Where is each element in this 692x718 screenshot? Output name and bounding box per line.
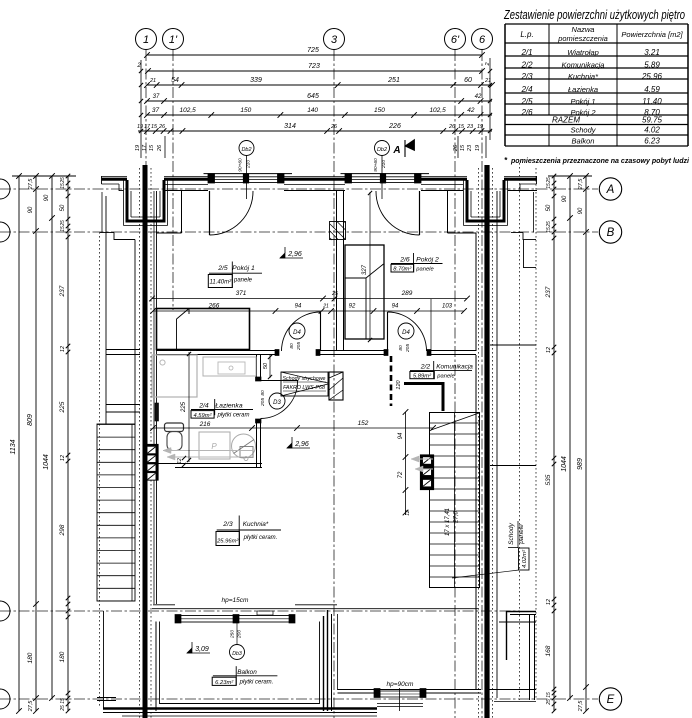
svg-text:Pokój 2: Pokój 2: [416, 257, 439, 264]
door D4 left leaf: [320, 312, 322, 351]
svg-text:25: 25: [331, 291, 339, 297]
svg-text:Nazwa: Nazwa: [572, 25, 595, 34]
svg-text:B: B: [607, 227, 615, 239]
svg-text:535: 535: [545, 474, 552, 485]
svg-text:15: 15: [60, 698, 66, 704]
svg-text:2/1: 2/1: [520, 48, 532, 57]
svg-text:27,5: 27,5: [578, 178, 584, 191]
chimney hatch in partition: [330, 222, 346, 240]
svg-text:21: 21: [149, 78, 156, 84]
svg-text:103: 103: [442, 304, 453, 310]
bathroom walls: [256, 355, 258, 380]
svg-text:25.96: 25.96: [641, 72, 663, 81]
stair balustrade: [404, 384, 443, 412]
axis A left stub bubble: [0, 179, 10, 199]
axis E line: [0, 698, 598, 700]
svg-text:15: 15: [151, 124, 158, 130]
svg-text:102,5: 102,5: [429, 107, 446, 114]
svg-text:90: 90: [562, 195, 568, 202]
axis B line: [0, 231, 598, 233]
svg-text:12: 12: [60, 455, 66, 461]
svg-text:19: 19: [477, 124, 483, 130]
svg-text:L.p.: L.p.: [520, 30, 533, 39]
kitchen south wall left part: [152, 608, 478, 610]
svg-text:15: 15: [546, 227, 552, 233]
svg-text:płytki ceram.: płytki ceram.: [243, 535, 278, 541]
svg-text:725: 725: [307, 47, 319, 54]
neighbour left walls: [100, 232, 114, 234]
stair opening dashed edge: [390, 356, 393, 406]
door top-left leaf: [209, 191, 211, 235]
svg-text:4.59m²: 4.59m²: [193, 413, 212, 419]
svg-text:3,09: 3,09: [195, 646, 209, 653]
right entry recess walls: [463, 180, 465, 226]
svg-text:168: 168: [545, 645, 552, 656]
neighbour right walls: [496, 191, 498, 698]
svg-text:3.21: 3.21: [644, 48, 660, 57]
axis 6 line: [481, 50, 483, 718]
axis 6' line: [454, 50, 456, 718]
level mark +2.96 Pokoj 1: [280, 253, 285, 258]
svg-text:Pokój 1: Pokój 1: [570, 97, 595, 106]
svg-text:E: E: [607, 694, 615, 706]
axis 1' bubble: [163, 29, 184, 50]
svg-text:200: 200: [237, 630, 243, 639]
shower tray: [152, 355, 197, 397]
svg-text:11.40m²: 11.40m²: [210, 280, 233, 286]
svg-text:2/3: 2/3: [520, 72, 533, 81]
svg-text:54: 54: [171, 77, 179, 84]
level mark +2.96 kitchen: [287, 443, 292, 448]
svg-text:120: 120: [396, 379, 402, 389]
left dimension chains: [12, 175, 76, 177]
svg-text:152: 152: [358, 420, 369, 427]
svg-text:płytki ceram: płytki ceram: [216, 413, 249, 419]
radiator bar west wall: [155, 403, 159, 421]
svg-text:37: 37: [153, 94, 160, 100]
svg-text:A: A: [392, 145, 400, 156]
svg-text:12: 12: [546, 599, 552, 605]
svg-text:17: 17: [144, 124, 151, 130]
outer dotted line far left: [99, 232, 101, 708]
right party wall insulation dotted: [478, 168, 480, 718]
svg-text:50: 50: [60, 204, 66, 211]
svg-text:Db3: Db3: [232, 651, 242, 657]
svg-text:23: 23: [466, 124, 474, 130]
svg-text:26: 26: [330, 124, 338, 130]
dim 266 line: [153, 310, 464, 312]
svg-text:90: 90: [28, 206, 34, 213]
svg-text:50: 50: [263, 362, 269, 369]
svg-text:25: 25: [60, 220, 66, 227]
svg-text:RAZEM: RAZEM: [552, 116, 580, 125]
svg-text:1: 1: [143, 34, 149, 46]
svg-text:205: 205: [405, 344, 411, 353]
axis B left stub bubble: [0, 222, 10, 242]
svg-text:Balkon: Balkon: [572, 137, 595, 146]
wardrobe Pokoj 2: [345, 245, 384, 339]
svg-text:989: 989: [577, 458, 584, 470]
top dimension chain rows: [147, 54, 482, 56]
dim 225 bathroom: [188, 352, 190, 462]
svg-text:1134: 1134: [10, 439, 17, 454]
svg-text:19: 19: [475, 145, 481, 151]
svg-text:Balkon: Balkon: [237, 669, 257, 676]
svg-text:25: 25: [546, 177, 552, 184]
svg-text:Łazienka: Łazienka: [215, 403, 242, 410]
svg-text:15: 15: [546, 183, 552, 189]
svg-text:6.23m²: 6.23m²: [215, 680, 234, 686]
svg-text:15: 15: [60, 226, 66, 232]
svg-text:19: 19: [137, 124, 143, 130]
svg-text:21: 21: [322, 304, 329, 310]
top exterior wall: [102, 175, 128, 177]
svg-text:D4: D4: [402, 330, 410, 336]
axis 3 bubble: [324, 29, 345, 50]
svg-text:panele: panele: [415, 266, 434, 272]
door top-right swing arc: [376, 191, 420, 235]
svg-text:23: 23: [467, 144, 473, 152]
axis 1' line: [172, 50, 174, 310]
svg-text:1044: 1044: [561, 456, 568, 472]
svg-text:2/2: 2/2: [420, 363, 431, 370]
svg-text:42: 42: [467, 107, 475, 114]
svg-text:27,5: 27,5: [28, 178, 34, 191]
left party wall: [143, 165, 148, 718]
door D4 left callout: [289, 323, 305, 339]
door top-left swing arc: [210, 191, 254, 235]
svg-text:15: 15: [458, 124, 465, 130]
svg-text:26: 26: [158, 124, 166, 130]
svg-text:12: 12: [546, 347, 552, 353]
svg-text:11.40: 11.40: [642, 97, 662, 106]
svg-text:hp=15cm: hp=15cm: [222, 597, 250, 604]
svg-text:90+60: 90+60: [373, 158, 379, 172]
svg-text:panele: panele: [436, 374, 455, 380]
washbasin counter: [203, 357, 256, 376]
svg-text:37: 37: [152, 107, 160, 114]
svg-text:1': 1': [169, 34, 178, 46]
svg-text:645: 645: [307, 93, 319, 100]
svg-text:Wiatrołap: Wiatrołap: [567, 48, 599, 57]
svg-text:59.75: 59.75: [642, 116, 663, 125]
svg-text:6.23: 6.23: [644, 137, 660, 146]
right dimension chains: [548, 175, 592, 177]
svg-text:266: 266: [208, 303, 220, 310]
svg-text:371: 371: [236, 290, 247, 297]
partition Pokoj1/Pokoj2: [336, 191, 338, 350]
axis A bubble: [599, 178, 621, 200]
axis E bubble: [599, 688, 621, 710]
svg-text:Schody: Schody: [508, 522, 515, 544]
svg-text:94: 94: [295, 304, 302, 310]
svg-text:2/5: 2/5: [217, 265, 228, 272]
svg-text:27,5: 27,5: [28, 700, 34, 713]
svg-text:94: 94: [392, 304, 399, 310]
svg-text:15: 15: [460, 144, 466, 151]
svg-text:19: 19: [135, 145, 141, 151]
svg-text:226: 226: [388, 123, 401, 130]
svg-text:Komunikacja: Komunikacja: [436, 363, 473, 370]
outer dotted line right mid: [519, 163, 521, 700]
window O2 left (Pokoj 1): [204, 173, 293, 175]
vent arrows stairs: [411, 458, 433, 460]
svg-text:25.96m²: 25.96m²: [216, 539, 239, 545]
svg-text:2/2: 2/2: [520, 61, 533, 70]
svg-text:2,96: 2,96: [287, 251, 302, 258]
komunikacja north wall: [156, 350, 278, 352]
svg-text:panele: panele: [233, 278, 253, 284]
svg-text:5.89m²: 5.89m²: [413, 374, 432, 380]
svg-text:panele: panele: [518, 524, 525, 545]
svg-text:Schody strychowe: Schody strychowe: [283, 376, 326, 382]
svg-text:3: 3: [331, 34, 338, 46]
left entry recess walls: [123, 180, 125, 226]
interior wall faces: [156, 191, 158, 604]
svg-text:hp=90cm: hp=90cm: [387, 681, 415, 688]
svg-text:210: 210: [246, 160, 252, 169]
svg-text:26: 26: [448, 124, 456, 130]
window O2 right callout: [375, 141, 390, 156]
svg-text:15: 15: [149, 144, 155, 151]
svg-text:314: 314: [284, 123, 296, 130]
svg-text:płytki ceram.: płytki ceram.: [239, 680, 274, 686]
svg-text:251: 251: [387, 77, 400, 84]
axis E left stub bubble: [0, 689, 10, 709]
svg-text:25: 25: [546, 221, 552, 228]
svg-text:D3: D3: [273, 400, 281, 406]
svg-text:2/3: 2/3: [222, 521, 233, 528]
svg-text:25: 25: [60, 705, 66, 712]
axis 6' bubble: [445, 29, 466, 50]
left party wall insulation dotted: [139, 168, 141, 718]
svg-text:5.89: 5.89: [644, 61, 660, 70]
svg-text:80: 80: [260, 390, 266, 396]
axis 1 bubble: [136, 29, 157, 50]
svg-text:150: 150: [240, 107, 251, 114]
svg-text:298: 298: [59, 524, 66, 536]
svg-text:Komunikacja: Komunikacja: [562, 61, 605, 70]
svg-text:12: 12: [405, 510, 411, 516]
bed Pokoj 1: [157, 309, 250, 350]
svg-text:15: 15: [546, 692, 552, 698]
svg-text:140: 140: [307, 107, 318, 114]
svg-text:90: 90: [578, 207, 584, 214]
balcony window Ob3: [178, 616, 294, 623]
svg-text:237: 237: [59, 285, 66, 297]
svg-text:4.59: 4.59: [644, 85, 660, 94]
svg-text:4.02: 4.02: [644, 126, 660, 135]
witness line door P2: [430, 299, 432, 350]
axis D left stub bubble: [0, 601, 10, 621]
door D4 right callout: [398, 323, 414, 339]
svg-text:237: 237: [545, 286, 552, 298]
svg-text:2/4: 2/4: [520, 85, 533, 94]
axis B bubble: [599, 221, 621, 243]
svg-text:180: 180: [59, 651, 66, 662]
svg-text:Schody: Schody: [570, 126, 596, 135]
door D4 right swing arc: [388, 312, 427, 351]
svg-text:17: 17: [142, 144, 148, 151]
svg-text:2/6: 2/6: [520, 108, 533, 117]
attic ladder box: [281, 372, 328, 396]
dim chain at stairs: [405, 412, 407, 515]
svg-text:2,96: 2,96: [294, 441, 309, 448]
svg-text:210: 210: [381, 160, 387, 169]
door D4 right leaf: [387, 312, 389, 351]
svg-text:2/6: 2/6: [399, 257, 410, 264]
svg-text:26: 26: [157, 144, 163, 152]
svg-text:216: 216: [199, 421, 211, 428]
svg-text:6: 6: [479, 34, 486, 46]
svg-text:339: 339: [250, 77, 262, 84]
axis 1 line: [145, 50, 147, 718]
svg-text:42: 42: [475, 94, 482, 100]
neighbour balcony: [103, 611, 105, 708]
door D3 callout: [269, 393, 285, 409]
axis 3 line: [333, 50, 335, 718]
svg-text:Pokój 1: Pokój 1: [232, 265, 255, 272]
svg-text:Kuchnia*: Kuchnia*: [243, 521, 269, 528]
svg-text:Łazienka: Łazienka: [568, 85, 598, 94]
window O2 right (Pokoj 2): [341, 173, 430, 175]
door D3 swing arc: [261, 381, 298, 419]
svg-text:25: 25: [60, 177, 66, 184]
vent duct arrows bathroom: [163, 450, 253, 452]
svg-text:2/5: 2/5: [520, 97, 533, 106]
axis A line: [0, 188, 598, 190]
svg-text:92: 92: [349, 304, 356, 310]
svg-text:Zestawienie powierzchni użytko: Zestawienie powierzchni użytkowych piętr…: [503, 8, 685, 22]
right party wall: [484, 165, 489, 718]
svg-text:15: 15: [60, 183, 66, 189]
svg-text:327: 327: [362, 264, 368, 275]
door top-right leaf: [419, 191, 421, 235]
svg-text:289: 289: [401, 290, 413, 297]
svg-text:12: 12: [60, 346, 66, 352]
neighbour staircase: [97, 424, 135, 601]
kitchen south wall with window hp90: [338, 689, 482, 691]
dim line 216/152: [153, 427, 433, 429]
svg-text:1044: 1044: [43, 454, 50, 470]
staircase: [430, 413, 480, 588]
svg-text:180: 180: [27, 652, 34, 663]
svg-text:50: 50: [546, 204, 552, 211]
svg-text:8.70m²: 8.70m²: [393, 266, 412, 272]
svg-text:80: 80: [289, 343, 295, 349]
svg-text:225: 225: [181, 401, 187, 413]
svg-text:12: 12: [177, 458, 183, 464]
svg-text:250: 250: [230, 630, 236, 639]
svg-text:Db2: Db2: [377, 147, 387, 153]
svg-text:102,5: 102,5: [180, 107, 197, 114]
dim 371 line: [152, 298, 467, 300]
attic ladder hatch bar: [329, 372, 343, 400]
svg-text:Kuchnia*: Kuchnia*: [568, 72, 599, 81]
window O2 left callout: [239, 141, 254, 156]
svg-text:80: 80: [398, 345, 404, 351]
svg-text:90+60: 90+60: [238, 158, 244, 172]
toilet: [165, 423, 184, 432]
door D3 leaf: [261, 380, 298, 382]
axis D line: [0, 610, 520, 612]
svg-text:205: 205: [260, 398, 266, 407]
flue block stairs: [421, 455, 434, 490]
svg-text:27,0: 27,0: [454, 511, 460, 524]
svg-text:17 x 17,41: 17 x 17,41: [445, 508, 451, 536]
outer dotted line far right: [535, 168, 537, 700]
svg-text:2/4: 2/4: [198, 403, 209, 410]
svg-text:P: P: [211, 442, 217, 451]
svg-text:723: 723: [308, 63, 320, 70]
svg-text:Powierzchnia [m2]: Powierzchnia [m2]: [621, 30, 683, 39]
washing machine: [199, 432, 230, 459]
svg-text:150: 150: [374, 107, 385, 114]
svg-text:pomieszczenia przeznaczone na: pomieszczenia przeznaczone na czasowy po…: [510, 156, 690, 165]
svg-text:225: 225: [59, 401, 66, 413]
svg-text:90: 90: [44, 194, 50, 201]
level mark +3.09 balcony: [187, 648, 192, 653]
flue block bathroom: [145, 445, 158, 481]
svg-text:60: 60: [464, 77, 472, 84]
svg-text:Db2: Db2: [241, 147, 251, 153]
svg-text:A: A: [606, 184, 615, 196]
svg-text:2: 2: [136, 63, 141, 69]
balcony slab: [155, 622, 157, 712]
svg-text:809: 809: [27, 414, 34, 426]
svg-text:25: 25: [546, 699, 552, 706]
dim 327: [369, 192, 371, 341]
svg-text:94: 94: [398, 432, 404, 439]
svg-text:27,5: 27,5: [578, 700, 584, 713]
svg-text:205: 205: [296, 342, 302, 351]
svg-text:FAKRO LWS-P68: FAKRO LWS-P68: [283, 385, 325, 391]
round fixture: [232, 434, 256, 458]
svg-text:4.02m²: 4.02m²: [522, 549, 528, 568]
svg-text:72: 72: [398, 471, 404, 478]
room area table frame: [505, 23, 688, 25]
svg-text:6': 6': [451, 34, 460, 46]
door D4 left swing arc: [282, 312, 321, 351]
svg-text:D4: D4: [293, 330, 301, 336]
svg-text:pomieszczenia: pomieszczenia: [557, 34, 608, 43]
axis 6 bubble: [472, 29, 493, 50]
